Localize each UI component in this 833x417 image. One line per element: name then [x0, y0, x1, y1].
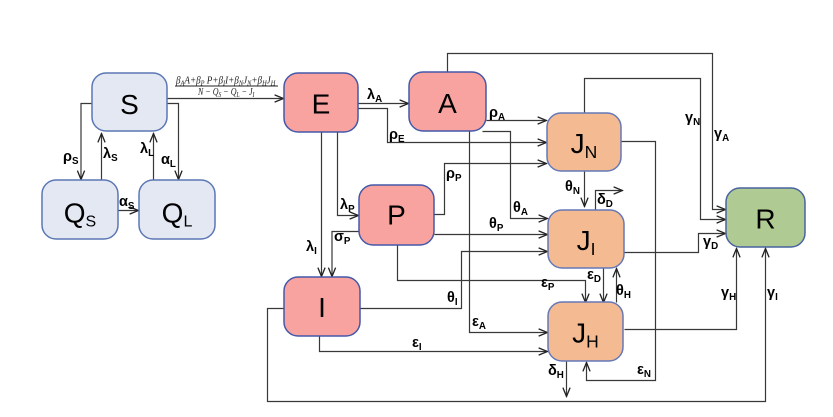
wire epsilon_A : A to J_H — [470, 132, 548, 333]
wire alpha_L : S to Q_L — [168, 104, 179, 180]
wire gamma_I : I to R — [268, 249, 766, 402]
wire lambda_A : E to A — [359, 103, 409, 105]
svg-text:αL: αL — [161, 152, 176, 170]
svg-text:θP: θP — [489, 216, 504, 234]
svg-text:P: P — [387, 200, 406, 231]
wire sigma_P : P to I — [332, 232, 359, 277]
svg-text:δD: δD — [597, 192, 613, 210]
wire epsilon_P : P to J_H — [398, 246, 586, 303]
svg-text:ρS: ρS — [63, 149, 79, 167]
svg-text:λS: λS — [103, 146, 118, 164]
svg-text:εA: εA — [472, 314, 486, 332]
wire theta_H : J_H to J_I — [616, 269, 618, 303]
wire rho_P : P to J_N — [435, 164, 547, 215]
svg-text:γI: γI — [767, 285, 778, 303]
svg-text:ρE: ρE — [389, 127, 405, 145]
svg-text:ρA: ρA — [489, 105, 505, 123]
svg-text:γH: γH — [721, 285, 736, 303]
wire rho_S : S to Q_S — [81, 104, 93, 180]
wire theta_A : A to J_I — [483, 132, 548, 219]
svg-text:εI: εI — [412, 335, 422, 353]
wire theta_P : P to J_I — [435, 234, 548, 236]
node A — [409, 72, 486, 131]
wire lambda_L : Q_L to S — [153, 134, 155, 180]
wire theta_N : J_N to J_I — [584, 172, 586, 207]
node R — [726, 188, 805, 247]
node I — [284, 277, 360, 336]
label force of infection fraction — [175, 75, 278, 99]
svg-text:λP: λP — [340, 197, 355, 215]
svg-text:εN: εN — [637, 362, 651, 380]
svg-text:λL: λL — [140, 141, 154, 159]
svg-text:γN: γN — [685, 110, 700, 128]
node J_H — [548, 302, 623, 361]
wire S to E — [168, 98, 284, 100]
wire delta_H : J_H out — [566, 362, 568, 397]
svg-text:δH: δH — [548, 363, 564, 381]
wire lambda_I : E to I — [321, 133, 323, 277]
svg-text:E: E — [312, 88, 331, 119]
node E — [284, 73, 358, 132]
wire epsilon_N : J_N to J_H — [587, 142, 656, 381]
wire gamma_D : J_I to R — [625, 234, 726, 253]
svg-text:S: S — [120, 89, 139, 120]
svg-text:θA: θA — [513, 200, 528, 218]
svg-text:A: A — [438, 88, 457, 119]
node P — [359, 185, 434, 245]
svg-text:R: R — [755, 204, 775, 235]
svg-text:ρP: ρP — [446, 166, 462, 184]
svg-text:λI: λI — [306, 239, 317, 257]
svg-text:εD: εD — [587, 267, 601, 285]
node S — [92, 73, 167, 131]
svg-text:λA: λA — [367, 87, 382, 105]
wire lambda_S : Q_S to S — [101, 134, 103, 180]
node J_I — [548, 210, 624, 268]
wire lambda_P : E to P — [338, 133, 359, 216]
node J_N — [547, 113, 621, 171]
wire rho_A : A to J_N — [487, 120, 547, 122]
wire rho_E : E to J_N — [359, 109, 547, 143]
svg-text:γD: γD — [703, 234, 718, 252]
wire gamma_A : A to R — [448, 54, 726, 210]
wire gamma_N : J_N to R — [585, 79, 726, 220]
wire delta_D : J_I out — [596, 191, 623, 211]
svg-text:γA: γA — [714, 126, 729, 144]
svg-text:N − QS − QL − JI: N − QS − QL − JI — [197, 86, 255, 99]
svg-text:θI: θI — [447, 290, 458, 308]
svg-text:εP: εP — [541, 275, 555, 293]
wire alpha_S : Q_S to Q_L — [119, 210, 139, 212]
wire gamma_H : J_H to R — [625, 249, 737, 330]
wire epsilon_I : I to J_H — [320, 337, 548, 352]
svg-text:I: I — [318, 292, 326, 323]
wire epsilon_D : J_I to J_H — [603, 269, 605, 303]
svg-text:αS: αS — [119, 194, 135, 212]
node Q_S — [42, 180, 118, 239]
svg-text:θH: θH — [616, 283, 631, 301]
node Q_L — [139, 180, 215, 239]
wire theta_I : I to J_I — [360, 252, 548, 309]
svg-text:θN: θN — [565, 179, 580, 197]
